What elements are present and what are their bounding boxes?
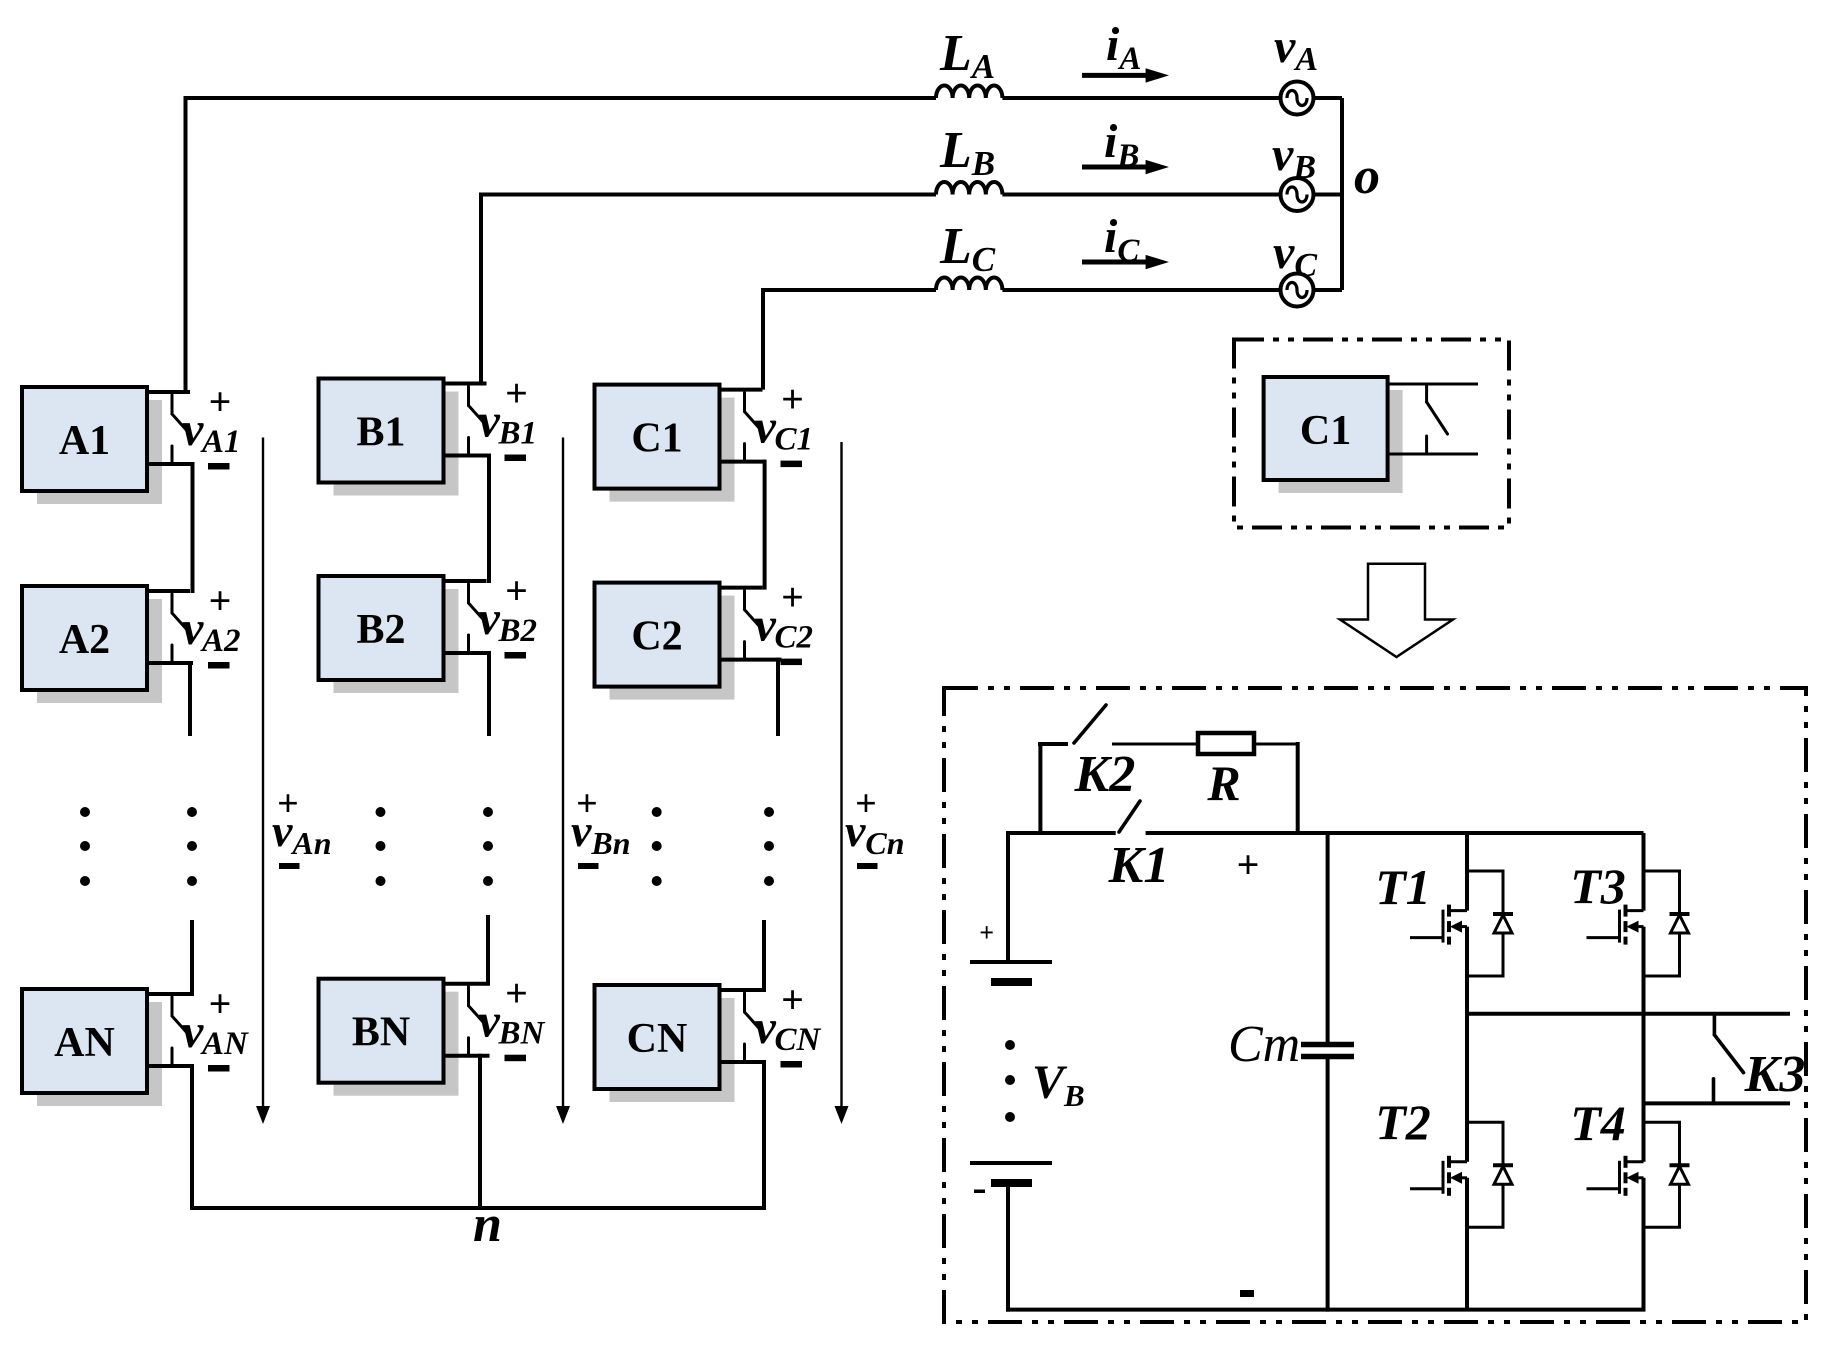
transistor T1: [1410, 905, 1467, 945]
switch SCN: [745, 993, 762, 1061]
ellipsis column B boxes: [376, 807, 386, 886]
arrow vAn: [256, 438, 270, 1125]
svg-text:BN: BN: [352, 1010, 410, 1056]
svg-text:+: +: [505, 568, 528, 613]
svg-text:C2: C2: [631, 614, 682, 660]
wire node o tie: [1340, 98, 1344, 290]
svg-text:T1: T1: [1375, 859, 1431, 915]
svg-text:+: +: [209, 981, 232, 1026]
wire A2 tail: [188, 661, 192, 736]
wire CN head: [762, 920, 766, 992]
svg-text:vA: vA: [1274, 20, 1318, 78]
svg-text:AN: AN: [200, 1026, 249, 1062]
label vCn with polarity: [845, 783, 905, 869]
svg-text:VB: VB: [1032, 1056, 1085, 1113]
block arrow (zoom indicator): [1340, 564, 1453, 657]
label - dc link: [1240, 1290, 1254, 1297]
svg-text:+: +: [505, 371, 528, 416]
svg-text:v: v: [182, 1005, 204, 1058]
svg-text:C1: C1: [1300, 408, 1351, 454]
module CN: [595, 985, 735, 1102]
inductor LA: [936, 85, 1002, 98]
svg-text:v: v: [479, 995, 501, 1048]
battery - terminal label: [974, 1190, 985, 1194]
svg-text:T4: T4: [1570, 1095, 1626, 1151]
wire K2 to R: [1112, 743, 1198, 746]
ellipsis column A wire: [187, 807, 197, 886]
arrow current iC: [1082, 210, 1169, 269]
svg-text:LB: LB: [939, 122, 995, 183]
label vA1 with polarity: [182, 379, 241, 470]
diode D2 (body diode of T2): [1467, 1122, 1513, 1227]
svg-text:vAn: vAn: [272, 805, 332, 861]
switch SB2: [469, 584, 486, 652]
wire phase A bus: [186, 98, 937, 392]
ac source vB: [1281, 178, 1314, 211]
wire battery top lead: [1006, 831, 1010, 962]
module C1: [595, 385, 735, 502]
wire phase B bus: [481, 195, 936, 384]
module C1 (callout copy): [1264, 377, 1403, 493]
svg-text:B2: B2: [356, 607, 405, 653]
wire C2 top stub: [718, 586, 763, 590]
label vAn with polarity: [272, 783, 332, 869]
transistor T2: [1410, 1156, 1467, 1196]
switch K2 blade: [1074, 705, 1106, 743]
wire dc bottom bus: [1006, 1308, 1646, 1312]
switch K3: [1714, 1014, 1744, 1104]
svg-text:v: v: [755, 401, 777, 454]
svg-text:iC: iC: [1104, 210, 1140, 269]
wire CN to n bus: [762, 1060, 766, 1208]
svg-text:+: +: [209, 379, 232, 424]
switch K3 (callout): [1427, 384, 1448, 454]
wire ac output lower: [1644, 1101, 1791, 1105]
svg-text:vC: vC: [1273, 226, 1317, 284]
wire BN top stub: [442, 982, 487, 986]
svg-text:n: n: [473, 1196, 502, 1253]
svg-text:+: +: [209, 578, 232, 623]
svg-text:+: +: [781, 377, 804, 422]
svg-text:B1: B1: [356, 410, 405, 456]
label vA2 with polarity: [182, 578, 241, 669]
wire AN head: [190, 920, 194, 996]
ellipsis column C boxes: [652, 807, 662, 886]
arrow current iB: [1082, 115, 1169, 174]
svg-text:C1: C1: [631, 416, 682, 462]
switch SA1: [172, 395, 189, 463]
wire A1-A2: [191, 462, 195, 593]
wire A1 bottom stub: [145, 462, 193, 466]
switch SAN: [172, 997, 189, 1065]
wire AN to n bus: [190, 1064, 194, 1208]
ac source vC: [1281, 274, 1314, 307]
label vBn with polarity: [571, 783, 631, 869]
svg-text:+: +: [1237, 842, 1260, 887]
diode D3 (body diode of T3): [1644, 871, 1690, 976]
wire phase C to source: [1002, 288, 1342, 292]
svg-text:LC: LC: [939, 218, 996, 279]
arrow vCn: [835, 442, 849, 1124]
svg-text:v: v: [755, 599, 777, 652]
switch K1 blade: [1119, 801, 1140, 832]
wire dc top bus left: [1006, 831, 1116, 835]
svg-text:+: +: [979, 918, 994, 947]
label vB2 with polarity: [479, 568, 538, 659]
wire phase B to source: [1002, 193, 1342, 197]
dash-dot frame around C1 detail: [1234, 340, 1509, 528]
wire phase C bus: [763, 290, 936, 390]
svg-text:R: R: [1206, 755, 1240, 811]
wire left leg upper: [1465, 833, 1469, 911]
wire BN to n bus: [478, 1054, 482, 1208]
wire A2 bottom stub: [145, 661, 193, 665]
wire dc top bus right: [1146, 831, 1644, 835]
wire A2 top stub: [145, 589, 190, 593]
switch SB1: [469, 387, 486, 455]
wire C2 bottom stub: [718, 658, 782, 662]
label vCN with polarity: [755, 977, 822, 1068]
resistor R: [1198, 733, 1254, 754]
diode D4 (body diode of T4): [1644, 1122, 1690, 1227]
svg-text:CN: CN: [775, 1022, 822, 1058]
svg-text:A2: A2: [59, 617, 110, 663]
switch SBN: [469, 987, 486, 1055]
svg-text:v: v: [182, 602, 204, 655]
svg-text:+: +: [781, 977, 804, 1022]
svg-text:K2: K2: [1074, 746, 1136, 803]
ac source vA: [1281, 82, 1314, 115]
wire K2 left lead: [1038, 742, 1068, 746]
wire right leg lower: [1642, 1178, 1646, 1310]
wire Cm top lead: [1326, 833, 1330, 1044]
svg-text:T2: T2: [1375, 1094, 1431, 1150]
wire B1 top stub: [442, 382, 487, 386]
battery cell top plates: [970, 962, 1052, 982]
svg-text:AN: AN: [54, 1020, 115, 1066]
switch SC1: [745, 393, 762, 461]
svg-text:iB: iB: [1104, 115, 1139, 174]
inductor LB: [936, 182, 1002, 195]
svg-text:+: +: [505, 971, 528, 1016]
capacitor Cm: [1301, 1045, 1354, 1057]
wire C1 bottom stub: [718, 460, 766, 464]
svg-text:iA: iA: [1106, 18, 1141, 77]
svg-text:LA: LA: [939, 25, 995, 86]
wire AN bottom stub: [145, 1064, 193, 1068]
wire right leg upper: [1642, 833, 1646, 911]
svg-text:C2: C2: [775, 620, 814, 656]
module C2: [595, 583, 735, 700]
wire left leg middle: [1465, 927, 1469, 1162]
ellipsis column C wire: [764, 807, 774, 886]
wire ac output upper: [1467, 1012, 1790, 1016]
wire neutral bus n: [190, 1206, 766, 1210]
wire phase A to source: [1002, 96, 1342, 100]
wire CN bottom stub: [718, 1060, 766, 1064]
wire B1 bottom stub: [442, 454, 490, 458]
wire right leg middle: [1642, 927, 1646, 1162]
switch SA2: [172, 594, 189, 662]
wire callout bottom lead: [1386, 453, 1478, 456]
transistor T4: [1587, 1156, 1644, 1196]
wire A1 top stub: [145, 390, 190, 394]
label vAN with polarity: [182, 981, 249, 1072]
svg-text:B2: B2: [498, 613, 538, 649]
svg-text:+: +: [781, 575, 804, 620]
module AN: [22, 989, 162, 1106]
wire C1-C2: [763, 460, 767, 590]
ellipsis battery cells: [1005, 1040, 1015, 1122]
wire BN head: [486, 915, 490, 986]
module B1: [319, 379, 459, 496]
module A2: [22, 586, 162, 703]
svg-text:CN: CN: [627, 1016, 688, 1062]
dash-dot frame of detailed module: [944, 688, 1806, 1322]
module B2: [319, 576, 459, 693]
svg-text:vB: vB: [1272, 128, 1316, 186]
wire B2 tail: [487, 651, 491, 736]
wire callout top lead: [1386, 383, 1478, 386]
wire C2 tail: [776, 658, 780, 736]
diode D1 (body diode of T1): [1467, 871, 1513, 976]
inductor LC: [936, 278, 1002, 291]
wire BN bottom stub: [442, 1054, 490, 1058]
arrow vBn: [556, 438, 570, 1125]
svg-text:B1: B1: [498, 416, 538, 452]
svg-text:C1: C1: [775, 422, 814, 458]
module A1: [22, 387, 162, 504]
svg-text:K1: K1: [1108, 837, 1170, 894]
svg-text:v: v: [755, 1001, 777, 1054]
svg-text:BN: BN: [498, 1016, 546, 1052]
wire K2 branch up: [1038, 742, 1042, 835]
label vC1 with polarity: [755, 377, 814, 468]
wire battery bottom lead: [1006, 1183, 1010, 1312]
label vC2 with polarity: [755, 575, 814, 666]
svg-text:A1: A1: [59, 418, 110, 464]
wire R to corner: [1254, 743, 1298, 746]
wire left leg lower: [1465, 1178, 1469, 1310]
svg-text:A2: A2: [200, 623, 241, 659]
battery cell bottom plates: [970, 1163, 1052, 1183]
arrow current iA: [1082, 18, 1169, 83]
svg-text:o: o: [1354, 148, 1380, 205]
module BN: [319, 979, 459, 1096]
switch SC2: [745, 591, 762, 659]
wire AN top stub: [145, 992, 190, 996]
label vB1 with polarity: [479, 371, 538, 462]
svg-text:Cm: Cm: [1228, 1016, 1300, 1073]
ellipsis column B wire: [483, 807, 493, 886]
wire K2 branch down: [1296, 742, 1300, 835]
wire CN top stub: [718, 988, 763, 992]
wire Cm bottom lead: [1326, 1057, 1330, 1312]
wire B2 bottom stub: [442, 651, 490, 655]
transistor T3: [1587, 905, 1644, 945]
svg-text:A1: A1: [200, 424, 241, 460]
wire C1 top stub: [718, 388, 763, 392]
ellipsis column A boxes: [80, 807, 90, 886]
svg-text:vBn: vBn: [571, 805, 631, 861]
svg-text:K3: K3: [1744, 1046, 1806, 1103]
label vBN with polarity: [479, 971, 546, 1061]
wire B2 top stub: [442, 579, 487, 583]
wire B1-B2: [487, 454, 491, 584]
svg-text:v: v: [479, 395, 501, 448]
svg-text:v: v: [479, 592, 501, 645]
svg-text:v: v: [182, 403, 204, 456]
svg-text:T3: T3: [1570, 858, 1626, 914]
